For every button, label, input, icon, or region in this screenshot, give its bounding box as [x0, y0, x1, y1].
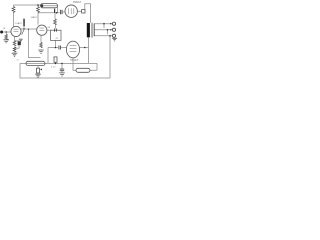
ground pot — [19, 39, 23, 42]
svg-text:6V6GT: 6V6GT — [73, 0, 82, 4]
wire V3 plate right — [78, 10, 82, 12]
wire grid drop to loop — [47, 48, 49, 64]
ground cap x62 — [59, 73, 65, 76]
wire R2 bottom to tube2 plate — [37, 13, 39, 25]
wire pill R3 inner lead — [41, 5, 58, 7]
ground comp pill1 — [35, 74, 41, 77]
potentiometer wiper arrow — [22, 30, 24, 35]
resistor R4 screen — [54, 19, 57, 25]
wire loop top line — [20, 62, 97, 64]
comp under pill1 — [37, 68, 40, 73]
node comp pill1 dot — [41, 69, 43, 71]
node term2 dot — [110, 29, 111, 30]
resistor R2 — [37, 7, 40, 13]
wire pill2 leads — [73, 63, 97, 70]
transformer secondary — [93, 24, 95, 37]
capacitor square cathode bypass — [18, 41, 21, 45]
wire loop left and bottom rail — [20, 63, 110, 78]
wire secondary taps — [94, 24, 112, 36]
node grid junction — [6, 31, 7, 32]
wire cathode cap parallel — [15, 41, 20, 48]
svg-text:12AX7: 12AX7 — [31, 16, 38, 19]
svg-text:6.3V: 6.3V — [51, 66, 56, 68]
wire junction drop to loop — [29, 29, 41, 58]
pill P1 power — [26, 61, 45, 65]
wire tube2 cathode — [40, 35, 42, 42]
wire tube2 to box — [47, 29, 51, 31]
capacitor box top — [55, 29, 57, 32]
node lamp junction — [55, 63, 57, 65]
node screen junction — [56, 12, 58, 14]
resistor cathode1 a — [13, 41, 16, 46]
resistor cathode1 b — [13, 47, 16, 52]
wire pill right lead down — [57, 6, 59, 13]
screen blob right of V3 — [82, 10, 85, 13]
wire tube1 plate coupling — [21, 28, 37, 30]
capacitor grid V4 — [59, 46, 61, 50]
wire input grid resistor drop — [5, 32, 7, 34]
junction bar screen node — [54, 9, 55, 13]
terminal 3 — [112, 34, 115, 37]
svg-text:5Y3GT: 5Y3GT — [70, 58, 79, 62]
tube V3 output — [65, 5, 77, 17]
node grid line V4 — [55, 47, 57, 49]
wire R2 to rail — [37, 5, 39, 7]
transformer T1 primary — [87, 23, 90, 37]
node pot junction — [23, 28, 24, 29]
wire cap to tube V3 grid — [62, 11, 64, 13]
ground cathode1 — [12, 53, 18, 56]
wire R1 plate lead — [13, 5, 15, 27]
choke pill R3 — [41, 4, 58, 8]
wire comp under pill1 — [37, 66, 39, 69]
node pot bar top — [23, 19, 24, 20]
ground input — [3, 40, 9, 43]
ground cathode2 — [38, 50, 44, 53]
choke left end dark — [41, 4, 44, 7]
wire tube1 cathode — [14, 36, 16, 40]
node tap stub b — [107, 29, 109, 31]
capacitor pot bar — [23, 20, 25, 27]
capacitor grid V3 — [60, 10, 62, 14]
transformer core lines — [91, 23, 92, 38]
node speaker return — [109, 35, 111, 37]
wire loop right drop — [96, 63, 98, 70]
lamp blob — [54, 57, 57, 62]
wire pot bar lead — [23, 26, 25, 29]
wire lamp blob lead — [55, 62, 57, 63]
wire screen resistor branch — [54, 13, 56, 19]
wire grid line tube4 — [48, 47, 66, 49]
node tap stub a — [103, 23, 105, 25]
terminal 2 — [112, 28, 115, 31]
capacitor filter x62 — [60, 69, 64, 71]
wire box to grid line — [55, 40, 57, 47]
wire tap stubs — [104, 24, 108, 35]
wire screen rail y13 — [38, 12, 60, 14]
resistor input grid — [5, 34, 8, 39]
wire tube4 bottom — [72, 58, 74, 64]
wire B+ rail top — [14, 4, 41, 6]
pill P2 heater — [76, 68, 90, 72]
wire speaker return — [109, 36, 111, 78]
tube V2 — [37, 25, 47, 35]
ground speaker terminal — [112, 38, 117, 41]
node plate line V4 — [84, 47, 86, 49]
node x28 junction — [28, 29, 29, 30]
svg-text:12AX7: 12AX7 — [15, 22, 22, 25]
wire cap at x62 — [61, 63, 63, 72]
tube V1 — [11, 26, 21, 36]
resistor cathode2 — [40, 42, 43, 47]
wire input to grid — [3, 31, 11, 33]
node rail R2 — [37, 4, 39, 6]
wire plate jog up to transformer — [85, 4, 91, 23]
box control — [51, 30, 62, 40]
resistor R1 — [12, 7, 15, 13]
wire resistor to box cap — [55, 25, 57, 28]
node input jack — [0, 31, 3, 34]
wire tube4 plate to transformer bottom — [80, 37, 89, 63]
node cap junction x62 — [61, 63, 63, 65]
tube V4 rectifier — [66, 41, 79, 58]
node term1 dot — [110, 23, 111, 24]
terminal 1 — [112, 22, 115, 25]
